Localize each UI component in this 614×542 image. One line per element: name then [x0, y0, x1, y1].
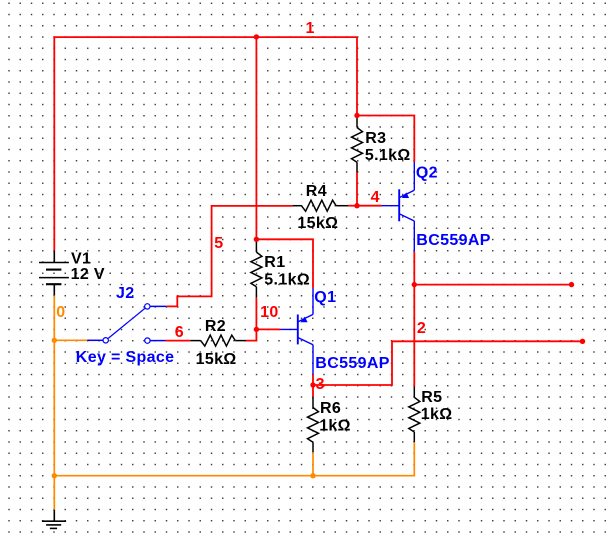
- junction net 1 at R1 drop: [254, 34, 259, 39]
- wire R4 right lead to node 4: [348, 205, 357, 207]
- svg-text:5.1kΩ: 5.1kΩ: [264, 272, 310, 289]
- svg-text:BC559AP: BC559AP: [315, 355, 389, 372]
- wire net 5 from switch throw to R4 left: [166, 206, 292, 307]
- wire Q1 collector to node 3: [312, 375, 314, 386]
- junction net 1 at R3 top: [354, 113, 359, 118]
- svg-text:Q2: Q2: [416, 164, 438, 181]
- svg-text:Key = Space: Key = Space: [76, 349, 175, 366]
- svg-text:1kΩ: 1kΩ: [421, 406, 453, 423]
- svg-text:R6: R6: [320, 400, 341, 417]
- junction at Q2 collector output: [412, 282, 417, 287]
- svg-text:0: 0: [56, 304, 65, 321]
- svg-text:5.1kΩ: 5.1kΩ: [365, 147, 411, 164]
- svg-text:BC559AP: BC559AP: [416, 232, 490, 249]
- junction net 0 at switch tap: [52, 338, 57, 343]
- end dot lower output: [580, 339, 585, 344]
- resistor R5 1k vertical: [409, 387, 420, 443]
- svg-text:5: 5: [214, 235, 223, 252]
- svg-text:R2: R2: [205, 318, 226, 335]
- resistor R4 15k horizontal: [293, 200, 349, 211]
- junction net 0 at ground: [52, 473, 57, 478]
- wire net 1 junction to Q1 emitter: [256, 239, 313, 288]
- wire net 6 switch lower throw to R2: [166, 340, 191, 342]
- transistor Q1 BC559AP: [281, 288, 314, 375]
- svg-text:10: 10: [260, 304, 279, 321]
- transistor Q2 BC559AP: [382, 162, 415, 252]
- svg-text:R1: R1: [264, 254, 285, 271]
- svg-text:15kΩ: 15kΩ: [297, 215, 338, 232]
- wire node 3 to R6 top: [312, 385, 314, 397]
- arrow Q1 emitter: [300, 317, 307, 323]
- junction node 10: [254, 327, 259, 332]
- svg-text:1kΩ: 1kΩ: [319, 418, 351, 435]
- resistor R3 5.1k vertical: [352, 116, 363, 172]
- junction node 4: [354, 203, 359, 208]
- svg-text:J2: J2: [116, 285, 135, 302]
- svg-text:15kΩ: 15kΩ: [196, 351, 237, 368]
- svg-text:R5: R5: [421, 389, 442, 406]
- wire R3 bottom to node 4: [356, 172, 358, 206]
- wire R1 bottom to node 10: [255, 298, 257, 330]
- svg-text:2: 2: [417, 320, 426, 337]
- wire net 1 drop to R1 top: [255, 37, 257, 239]
- resistor R1 5.1k vertical: [251, 241, 262, 298]
- end dot upper output: [569, 282, 574, 287]
- switch J2: [87, 304, 166, 344]
- junction node 3: [310, 382, 315, 387]
- wire net 1 top rail from V1 plus up and across: [54, 37, 357, 251]
- svg-text:R3: R3: [365, 130, 386, 147]
- wire Q2 collector down: [413, 252, 415, 285]
- svg-text:3: 3: [316, 376, 325, 393]
- resistor R2 15k horizontal: [190, 335, 246, 346]
- svg-text:6: 6: [175, 324, 184, 341]
- svg-text:4: 4: [371, 189, 380, 206]
- junction node at Q1 emitter rail: [254, 237, 259, 242]
- resistor R6 1k vertical: [308, 397, 319, 453]
- wire net 0 tap to switch pole: [54, 339, 87, 341]
- wire R2 right to node 10: [246, 329, 257, 340]
- svg-text:12 V: 12 V: [71, 266, 105, 283]
- junction net 0 at R6: [310, 473, 315, 478]
- wire junction down to R5 top: [413, 285, 415, 387]
- wire upper output: [414, 284, 571, 286]
- ground: [42, 510, 66, 529]
- wire net 0 bottom rail: [54, 442, 414, 476]
- battery V1: [39, 251, 69, 296]
- wire R6 bottom to rail: [312, 452, 314, 475]
- svg-text:Q1: Q1: [314, 289, 336, 306]
- wire net 0 battery minus down left side: [53, 295, 55, 509]
- wire node 10 to Q1 base: [256, 328, 280, 330]
- wire net 1 drop to R3 and Q2 emitter: [357, 37, 414, 162]
- wire net 2 node 3 to right output: [313, 341, 583, 385]
- wire node 4 to Q2 base: [357, 205, 382, 207]
- svg-text:1: 1: [306, 20, 315, 37]
- arrow Q2 emitter: [402, 192, 409, 198]
- svg-text:R4: R4: [306, 183, 327, 200]
